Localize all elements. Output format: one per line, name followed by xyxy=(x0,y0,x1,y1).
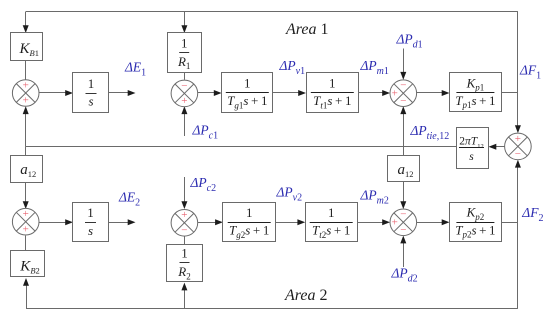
svg-text:+: + xyxy=(23,223,29,235)
svg-text:1: 1 xyxy=(87,205,94,220)
svg-text:+: + xyxy=(181,95,187,107)
svg-text:+: + xyxy=(23,95,29,107)
svg-text:+: + xyxy=(392,88,398,100)
svg-text:Tp1​s + 1: Tp1​s + 1 xyxy=(455,93,495,110)
svg-text:+: + xyxy=(181,209,187,221)
svg-text:1: 1 xyxy=(88,76,95,91)
svg-text:−: − xyxy=(515,148,521,160)
svg-text:s: s xyxy=(88,223,93,238)
svg-text:Tg1​s + 1: Tg1​s + 1 xyxy=(227,93,267,110)
svg-text:−: − xyxy=(400,80,406,92)
svg-text:1: 1 xyxy=(181,246,188,261)
svg-text:Tt2​s + 1: Tt2​s + 1 xyxy=(312,223,350,240)
svg-text:−: − xyxy=(400,95,406,107)
svg-text:−: − xyxy=(400,224,406,236)
svg-text:Area 2: Area 2 xyxy=(284,287,328,304)
svg-text:+: + xyxy=(392,217,398,229)
svg-text:+: + xyxy=(23,79,29,91)
svg-text:+: + xyxy=(515,133,521,145)
svg-text:−: − xyxy=(400,209,406,221)
svg-text:Tt1​s + 1: Tt1​s + 1 xyxy=(313,93,351,110)
svg-text:s: s xyxy=(88,94,93,109)
svg-text:1: 1 xyxy=(181,35,188,50)
svg-text:1: 1 xyxy=(246,205,253,220)
svg-text:1: 1 xyxy=(244,76,251,91)
svg-text:Area 1: Area 1 xyxy=(285,21,329,38)
svg-text:−: − xyxy=(181,224,187,236)
svg-text:s: s xyxy=(469,151,474,163)
svg-text:+: + xyxy=(23,208,29,220)
svg-text:−: − xyxy=(181,80,187,92)
svg-text:1: 1 xyxy=(329,76,336,91)
svg-text:Tp2​s + 1: Tp2​s + 1 xyxy=(455,222,495,239)
svg-text:Tg2​s + 1: Tg2​s + 1 xyxy=(229,223,269,240)
svg-text:1: 1 xyxy=(328,205,335,220)
